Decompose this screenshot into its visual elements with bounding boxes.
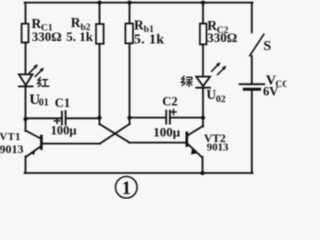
svg-text:100μ: 100μ bbox=[153, 124, 181, 139]
svg-text:330Ω: 330Ω bbox=[32, 29, 62, 44]
svg-text:R: R bbox=[71, 15, 81, 30]
svg-text:C1: C1 bbox=[55, 96, 70, 110]
svg-text:5. 1k: 5. 1k bbox=[134, 31, 164, 46]
svg-text:U: U bbox=[206, 87, 216, 102]
svg-text:R: R bbox=[134, 17, 144, 32]
svg-text:100μ: 100μ bbox=[51, 123, 77, 137]
svg-text:330Ω: 330Ω bbox=[207, 30, 237, 45]
svg-text:9013: 9013 bbox=[207, 142, 229, 154]
svg-text:6V: 6V bbox=[263, 85, 278, 99]
svg-text:01: 01 bbox=[39, 98, 49, 109]
svg-text:5. 1k: 5. 1k bbox=[66, 29, 94, 44]
svg-text:C2: C2 bbox=[162, 95, 177, 109]
svg-text:9013: 9013 bbox=[0, 142, 24, 156]
svg-text:S: S bbox=[263, 39, 271, 54]
svg-text:1: 1 bbox=[122, 179, 131, 199]
svg-text:02: 02 bbox=[216, 94, 226, 105]
